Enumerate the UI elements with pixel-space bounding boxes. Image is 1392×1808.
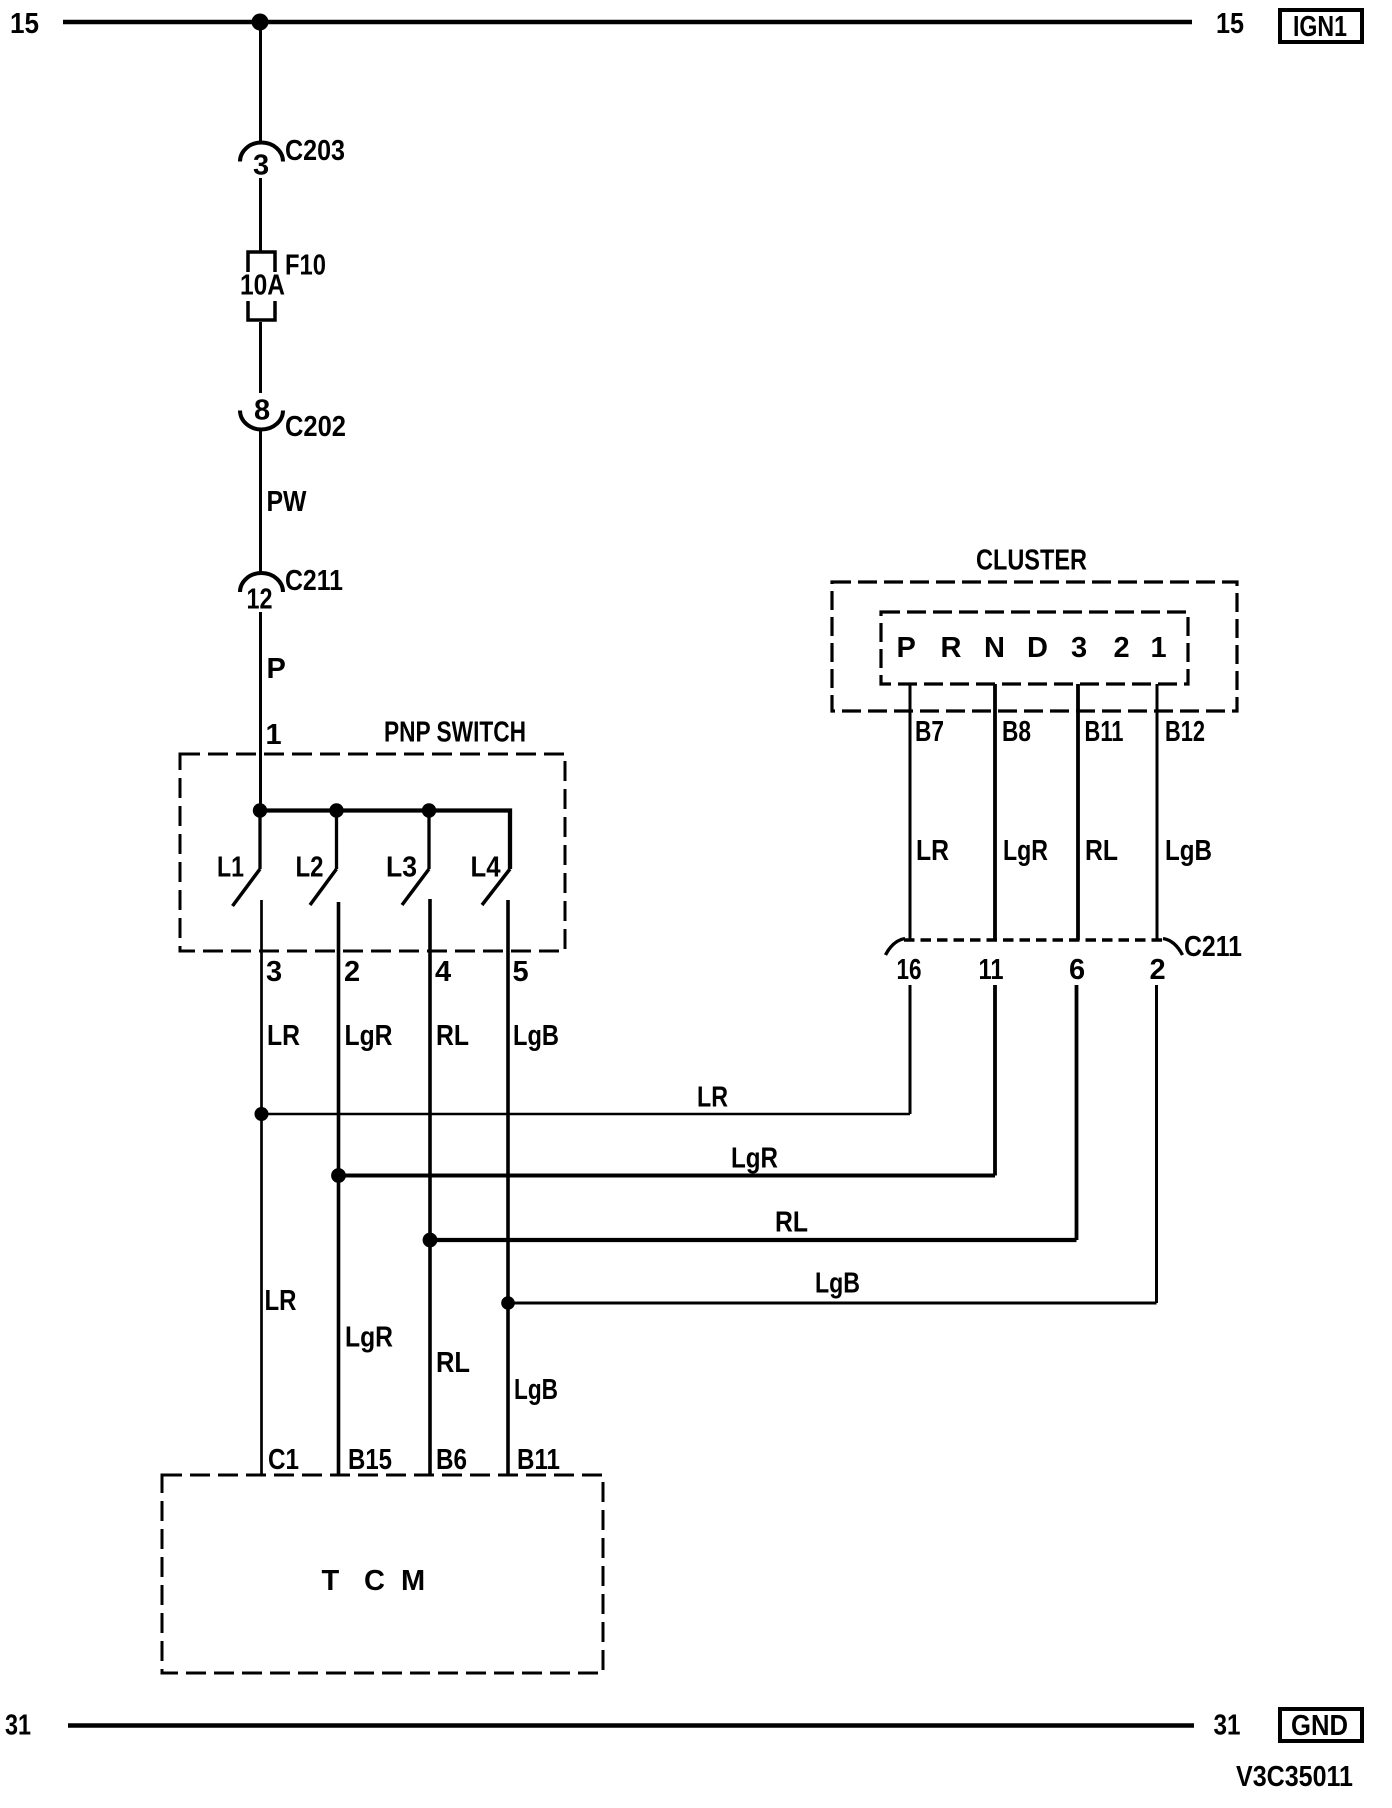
TCM box [162,1475,603,1673]
svg-text:8: 8 [254,395,270,427]
svg-text:B7: B7 [915,716,944,748]
svg-text:5: 5 [513,956,529,988]
svg-text:L2: L2 [296,852,324,884]
GND box [1280,1709,1362,1741]
svg-text:B11: B11 [517,1444,560,1476]
svg-text:2: 2 [1114,632,1130,664]
svg-text:C1: C1 [268,1444,299,1476]
svg-text:4: 4 [435,956,451,988]
junction dot node 3 [422,803,436,817]
wire F10 to C202 [259,322,262,393]
switch L2 [335,811,338,870]
svg-text:15: 15 [1216,8,1244,40]
junction dot LgR [331,1168,346,1183]
svg-text:12: 12 [247,584,273,616]
wire L2 contact down to TCM B15 [337,902,341,1475]
svg-text:RL: RL [1085,835,1118,867]
svg-text:31: 31 [1214,1710,1241,1742]
svg-text:RL: RL [436,1347,470,1379]
wire C202 to C211, PW [259,429,262,574]
switch L4 [482,869,510,905]
svg-text:C211: C211 [285,565,343,597]
svg-text:LgB: LgB [1165,835,1212,867]
IGN1 box [1280,10,1362,42]
wire C211 pin 6 to RL run [1075,985,1079,1240]
svg-text:PNP SWITCH: PNP SWITCH [384,717,526,749]
svg-text:LgR: LgR [731,1143,778,1175]
svg-text:B6: B6 [436,1444,467,1476]
connector C202 [240,411,283,430]
junction dot node 1 [253,803,267,817]
wire LgB horizontal run [508,1302,1157,1305]
svg-text:6: 6 [1069,954,1085,986]
svg-text:LgR: LgR [345,1020,393,1052]
svg-text:N: N [984,632,1005,664]
svg-text:IGN1: IGN1 [1293,11,1347,43]
junction dot LR [255,1107,269,1121]
svg-text:P: P [897,632,916,664]
svg-text:LgB: LgB [514,1374,558,1406]
svg-text:31: 31 [5,1710,31,1742]
svg-text:LR: LR [697,1082,728,1114]
fuse F10 10A [248,252,275,272]
top rail 15 (IGN1 feed) [63,20,1192,25]
svg-text:B11: B11 [1085,716,1124,748]
svg-text:LR: LR [916,835,949,867]
svg-text:C203: C203 [285,135,345,167]
svg-text:RL: RL [436,1020,469,1052]
svg-text:LgR: LgR [1003,835,1048,867]
svg-text:B12: B12 [1165,716,1205,748]
junction dot LgB [501,1296,515,1310]
svg-text:C: C [364,1565,385,1597]
svg-text:LgB: LgB [513,1020,559,1052]
svg-text:PW: PW [267,486,308,518]
wire C211 pin 2 to LgB run [1155,985,1158,1303]
svg-text:3: 3 [266,956,282,988]
wire C203 to F10 [259,178,262,251]
connector C211 (upper) [240,573,283,592]
svg-text:M: M [401,1565,425,1597]
svg-text:1: 1 [266,719,282,751]
svg-text:16: 16 [897,954,922,986]
svg-text:GND: GND [1291,1710,1348,1742]
svg-text:3: 3 [1071,632,1087,664]
CLUSTER box [832,582,1237,711]
svg-text:1: 1 [1151,632,1167,664]
wire cluster N to C211 pin 11 [993,684,997,940]
bus wire in PNP switch [260,811,510,870]
wire RL horizontal run [430,1238,1077,1242]
junction dot top rail [252,14,269,31]
wire C211 to PNP switch, P [259,612,262,811]
svg-text:L3: L3 [386,852,417,884]
wire L1 contact down to TCM C1 [260,900,263,1475]
wire C211 pin 16 to LR run [909,985,912,1114]
svg-text:11: 11 [979,954,1004,986]
svg-text:LgR: LgR [345,1322,393,1354]
svg-text:2: 2 [1150,954,1166,986]
svg-text:10A: 10A [240,270,285,302]
svg-text:2: 2 [344,956,360,988]
svg-text:LR: LR [265,1285,297,1317]
wire cluster P to C211 pin 16 [909,684,912,940]
bottom rail 31 (GND) [68,1723,1194,1728]
svg-text:D: D [1027,632,1048,664]
svg-text:LR: LR [267,1020,300,1052]
svg-text:P: P [267,653,286,685]
svg-text:3: 3 [253,150,269,182]
svg-text:B8: B8 [1002,716,1031,748]
cluster PRND321 indicator box [881,612,1188,684]
svg-text:CLUSTER: CLUSTER [976,545,1087,577]
svg-text:V3C35011: V3C35011 [1236,1761,1353,1793]
wire LgR horizontal run [339,1174,996,1178]
wire L4 contact down to TCM B11 [506,900,510,1475]
wire C211 pin 11 to LgR run [993,985,997,1176]
svg-text:R: R [941,632,962,664]
svg-text:B15: B15 [348,1444,392,1476]
connector C203 [240,143,283,162]
connector C211 lower (dashed) [904,938,1164,941]
svg-text:RL: RL [775,1207,808,1239]
svg-text:LgB: LgB [815,1268,860,1300]
wire cluster 1 to C211 pin 2 [1156,684,1159,940]
wire rail to C203 [259,22,262,143]
svg-text:F10: F10 [285,250,326,282]
wire cluster 3 to C211 pin 6 [1076,684,1080,940]
svg-text:L1: L1 [217,852,244,884]
switch L1 [258,811,261,870]
wire L3 contact down to TCM B6 [428,899,432,1475]
wire LR horizontal run [262,1113,911,1116]
svg-text:L4: L4 [471,852,501,884]
svg-text:15: 15 [10,8,39,40]
svg-text:T: T [322,1565,340,1597]
switch L3 [427,811,430,870]
junction dot node 2 [329,803,343,817]
svg-text:C202: C202 [285,411,346,443]
svg-text:C211: C211 [1184,931,1242,963]
junction dot RL [423,1233,438,1248]
PNP SWITCH box [180,754,565,951]
